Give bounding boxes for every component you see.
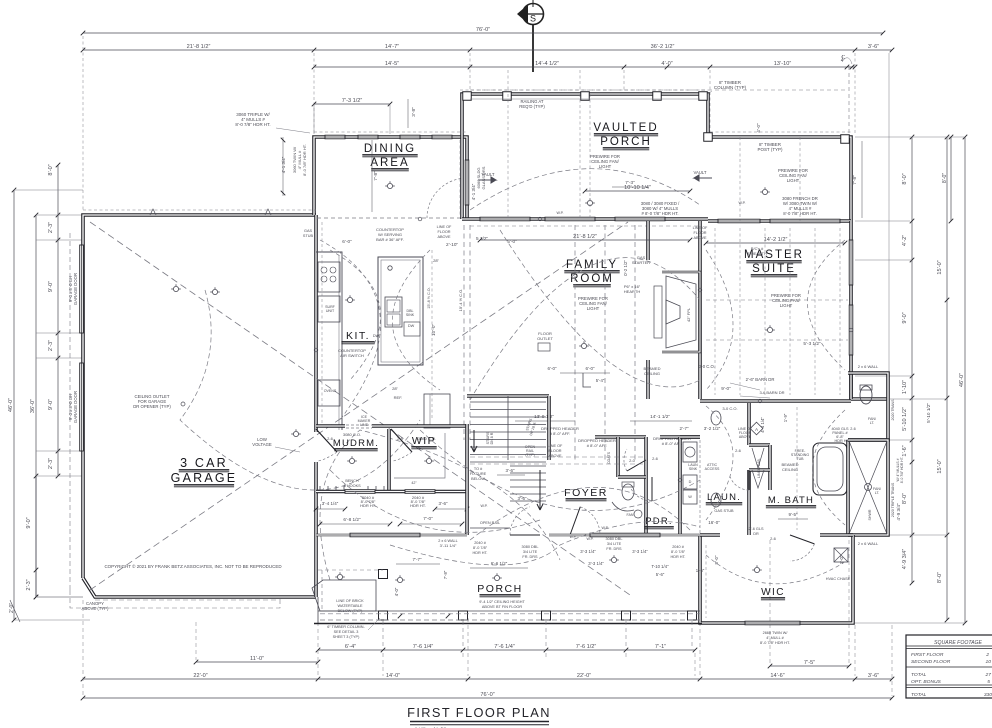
svg-text:3’-6”: 3’-6” [439,501,448,506]
svg-text:14’-5”: 14’-5” [385,61,399,67]
svg-text:VAULT: VAULT [481,172,494,177]
svg-text:2040 #: 2040 # [672,545,685,549]
svg-text:GAS STUB: GAS STUB [714,509,734,513]
svg-text:14’-1 1/2”: 14’-1 1/2” [650,414,670,419]
svg-text:42” FPL: 42” FPL [686,307,691,322]
garage arcs [180,290,420,490]
svg-text:ABOVE: ABOVE [739,435,752,439]
stairs [465,424,469,535]
svg-text:DN 8 R.: DN 8 R. [490,432,494,445]
svg-text:76’-0”: 76’-0” [480,692,494,698]
svg-text:# 8’-0” AFF.: # 8’-0” AFF. [587,443,608,448]
svg-text:ABOVE: ABOVE [437,235,451,239]
fireplace [662,272,700,352]
svg-text:2’-6” BARN DR: 2’-6” BARN DR [746,377,775,382]
svg-text:BENCH: BENCH [345,479,359,483]
svg-text:330: 330 [984,692,992,698]
svg-text:8’-0 7/8” HDR HT.: 8’-0 7/8” HDR HT. [760,641,790,645]
svg-text:ABOVE BT FIN FLOOR: ABOVE BT FIN FLOOR [482,605,522,609]
svg-text:M. BATH: M. BATH [768,495,814,506]
svg-text:9’-0”: 9’-0” [902,312,908,323]
right dims [911,137,913,583]
svg-text:2 x 6 WALL: 2 x 6 WALL [858,541,879,546]
svg-text:7’-3”: 7’-3” [625,180,635,185]
svg-text:3’-6”: 3’-6” [868,44,879,50]
svg-text:14’-7”: 14’-7” [385,44,399,50]
svg-text:STUB: STUB [303,234,314,238]
svg-text:GLASS DRS: GLASS DRS [481,166,486,189]
svg-text:28”: 28” [433,258,439,263]
svg-text:2660 TWIN W/: 2660 TWIN W/ [763,631,789,635]
svg-text:LIGHT: LIGHT [587,306,600,311]
svg-text:FR. DRS: FR. DRS [522,555,538,559]
svg-text:VAULT: VAULT [693,170,706,175]
svg-text:6” TIMBER COLUMN-: 6” TIMBER COLUMN- [327,625,365,629]
svg-text:13’-10”: 13’-10” [774,61,792,67]
svg-text:3’-2 1/2”: 3’-2 1/2” [704,426,721,431]
garage X ceiling lines [90,222,630,595]
svg-text:1’-6”: 1’-6” [902,445,908,456]
svg-text:6’-8 1/2”: 6’-8 1/2” [343,517,361,522]
svg-text:DW: DW [373,334,380,338]
svg-text:FLOOR: FLOOR [437,230,450,234]
svg-text:LT.: LT. [870,421,875,425]
svg-text:LIGHT: LIGHT [780,303,793,308]
garage walls [83,215,316,578]
svg-text:6’-6 1/2”: 6’-6 1/2” [491,561,508,566]
svg-text:10’-10 1/4”: 10’-10 1/4” [624,185,651,191]
svg-text:15’-0”: 15’-0” [937,260,943,274]
canopy dashed [69,233,71,590]
svg-text:5’-3 1/2”: 5’-3 1/2” [803,341,821,346]
svg-text:2020 TRANS: 2020 TRANS [891,399,895,421]
svg-text:R/C’s #: R/C’s # [751,247,764,251]
svg-text:15’-0”: 15’-0” [937,459,943,473]
svg-text:A: A [755,427,758,432]
svg-text:7’-5”: 7’-5” [804,660,815,666]
svg-text:1’-9”: 1’-9” [783,413,788,422]
svg-text:COATS: COATS [607,451,611,464]
kitchen [316,252,342,430]
svg-text:CEILING: CEILING [644,371,660,376]
svg-text:8’-0”: 8’-0” [902,493,908,504]
svg-text:ABOVE (TYP): ABOVE (TYP) [82,606,110,611]
svg-text:GARAGE: GARAGE [171,471,238,485]
svg-text:16’-0”: 16’-0” [708,520,720,525]
svg-text:4’-0”: 4’-0” [756,123,761,133]
svg-text:COLUMN (TYP): COLUMN (TYP) [714,85,747,90]
svg-text:PORCH: PORCH [477,583,522,595]
svg-text:28”: 28” [392,386,398,391]
svg-text:8’-0 7/8” HDR HT.: 8’-0 7/8” HDR HT. [235,122,270,127]
svg-text:14’-4 1/2”: 14’-4 1/2” [535,61,559,67]
svg-text:W.P.: W.P. [556,211,563,215]
svg-text:21’-8 1/2”: 21’-8 1/2” [187,44,211,50]
svg-text:8’-0”: 8’-0” [937,572,943,583]
svg-text:CEILING: CEILING [782,467,798,472]
svg-text:LIGHT: LIGHT [599,164,612,169]
svg-text:REQ’D (TYP): REQ’D (TYP) [519,104,545,109]
svg-text:HDR HT.: HDR HT. [835,439,850,443]
svg-text:0’-2 1/2”: 0’-2 1/2” [623,260,628,276]
svg-text:15’-4 ½ C.O.: 15’-4 ½ C.O. [458,289,463,312]
svg-text:8’ HEARTH: 8’ HEARTH [747,252,767,256]
svg-text:GARAGE DOOR: GARAGE DOOR [73,273,78,305]
family room [646,221,650,260]
svg-text:3080 DBL: 3080 DBL [606,537,623,541]
svg-text:FIXTURE: FIXTURE [470,472,487,476]
svg-text:T-10 1/4”: T-10 1/4” [651,564,669,569]
svg-text:TOTAL: TOTAL [911,672,927,678]
svg-text:7’-1”: 7’-1” [655,644,666,650]
svg-text:DW: DW [408,324,415,328]
svg-text:14’-6”: 14’-6” [770,673,784,679]
svg-text:9’-0”: 9’-0” [721,386,731,391]
svg-text:4’-1 3/4”: 4’-1 3/4” [281,156,286,173]
svg-text:2040 #: 2040 # [474,541,487,545]
svg-text:PORCH: PORCH [600,136,652,148]
svg-text:FLOOR: FLOOR [548,449,561,453]
svg-text:3 CAR: 3 CAR [180,456,228,470]
svg-text:SECOND FLOOR: SECOND FLOOR [911,659,951,665]
svg-text:3’-6”: 3’-6” [868,673,879,679]
svg-text:3’-6”: 3’-6” [506,468,515,473]
svg-text:VAULTED: VAULTED [593,122,658,134]
svg-text:BELOW (TYP): BELOW (TYP) [338,609,363,613]
svg-text:6’-0”: 6’-0” [586,366,595,371]
svg-text:REF.: REF. [394,395,403,400]
svg-text:2’-3”: 2’-3” [26,579,32,590]
dining walls [314,137,467,219]
master suite [698,221,702,399]
svg-text:7’-8”: 7’-8” [443,570,448,579]
svg-text:BAR # 36” AFF.: BAR # 36” AFF. [376,237,404,242]
svg-text:3/4 LITE: 3/4 LITE [523,550,538,554]
svg-text:7’-6 1/4”: 7’-6 1/4” [413,644,434,650]
svg-text:SEE DETAIL 3: SEE DETAIL 3 [334,630,359,634]
svg-text:36’-0”: 36’-0” [30,399,36,413]
svg-text:LINE OF: LINE OF [548,444,563,448]
svg-text:2’-3”: 2’-3” [48,458,54,469]
svg-text:14’-0”: 14’-0” [386,673,400,679]
pdr & closets [595,435,646,439]
svg-text:4’-0”: 4’-0” [661,61,672,67]
svg-text:DINING: DINING [364,143,416,155]
svg-text:WATERTABLE: WATERTABLE [338,604,363,608]
svg-text:2-6: 2-6 [327,436,334,441]
svg-text:DR: DR [753,532,759,536]
svg-text:1’-10”: 1’-10” [902,380,908,394]
svg-text:(TYP): (TYP) [525,453,534,457]
svg-text:4” MULL #: 4” MULL # [766,636,784,640]
svg-text:5 1/2”: 5 1/2” [476,236,488,241]
svg-text:SINK: SINK [689,467,698,471]
svg-text:COPYRIGHT © 2021 BY FRANK BETZ: COPYRIGHT © 2021 BY FRANK BETZ ASSOCIATE… [104,563,282,569]
svg-text:3080 DBL: 3080 DBL [522,545,539,549]
svg-text:2-6: 2-6 [735,448,742,453]
svg-text:2-6: 2-6 [850,427,856,431]
svg-text:OVENS: OVENS [324,389,337,393]
svg-text:6’-0”: 6’-0” [548,366,557,371]
svg-text:3’-4 1/4”: 3’-4 1/4” [322,501,339,506]
svg-text:8’-0 7/8” HDR HT.: 8’-0 7/8” HDR HT. [900,457,904,484]
svg-text:7’-7”: 7’-7” [413,557,422,562]
svg-text:STARTER: STARTER [632,260,650,265]
svg-text:UNIT: UNIT [326,309,335,313]
svg-text:42”: 42” [411,481,417,485]
svg-text:3’-3 1/4”: 3’-3 1/4” [580,549,596,554]
svg-text:15’-8 ½ C.O.: 15’-8 ½ C.O. [427,287,431,309]
svg-text:ABOVE: ABOVE [693,236,707,240]
svg-text:LINE OF BRICK: LINE OF BRICK [336,599,364,603]
svg-text:9’-0”: 9’-0” [48,399,54,410]
svg-text:5’-4”: 5’-4” [596,378,605,383]
svg-text:WIC: WIC [761,587,785,598]
svg-text:22’-0”: 22’-0” [577,673,591,679]
svg-text:7’-6 1/2”: 7’-6 1/2” [576,644,597,650]
svg-text:SHWR: SHWR [868,509,872,520]
svg-text:7’-8”: 7’-8” [373,171,378,181]
svg-text:5’-10 1/2”: 5’-10 1/2” [926,403,931,423]
svg-text:AIR SWITCH: AIR SWITCH [340,353,364,358]
svg-text:76’-0”: 76’-0” [476,27,490,33]
svg-text:9’-0”: 9’-0” [26,517,32,528]
svg-text:W.P.: W.P. [570,535,577,539]
svg-text:LIGHT: LIGHT [787,178,800,183]
svg-text:KIT.: KIT. [346,330,370,342]
svg-text:1’-6”: 1’-6” [696,568,705,573]
svg-text:6’-4”: 6’-4” [345,644,356,650]
svg-text:SHEET 3 (TYP): SHEET 3 (TYP) [333,635,360,639]
svg-text:2: 2 [985,652,989,658]
svg-text:HDR HT.: HDR HT. [360,503,376,508]
svg-text:3-6 BARN DR: 3-6 BARN DR [760,390,785,395]
svg-text:FLOOR: FLOOR [693,231,706,235]
svg-text:21’-8 1/2”: 21’-8 1/2” [573,234,597,240]
svg-text:2-6: 2-6 [770,536,777,541]
svg-text:HDR HT.: HDR HT. [671,555,686,559]
svg-text:8’-0”: 8’-0” [48,164,54,175]
svg-text:BELOW: BELOW [471,477,485,481]
svg-text:HEARTH: HEARTH [624,289,641,294]
svg-text:22’-0”: 22’-0” [193,673,207,679]
svg-text:HDR HT.: HDR HT. [473,551,488,555]
svg-text:8’-0 7/8”: 8’-0 7/8” [473,546,488,550]
svg-text:2 x 6 WALL: 2 x 6 WALL [858,364,879,369]
svg-text:9’-5”: 9’-5” [789,512,798,517]
svg-text:4’-1 3/4”: 4’-1 3/4” [471,183,476,200]
svg-text:LINE OF: LINE OF [437,225,452,229]
svg-text:FOYER: FOYER [564,487,608,499]
left dims [13,190,15,620]
svg-text:LINE OF: LINE OF [693,226,708,230]
svg-text:7’-0”: 7’-0” [423,516,433,521]
extension lines [382,621,384,648]
svg-text:9’-4 1/2” CEILING HEIGHT: 9’-4 1/2” CEILING HEIGHT [479,600,525,604]
svg-text:3’-8”: 3’-8” [411,107,416,117]
svg-text:HVAC CHASE: HVAC CHASE [826,577,851,581]
master bath [700,399,851,403]
svg-text:# 8’-0 7/8” HDR HT.: # 8’-0 7/8” HDR HT. [641,211,678,216]
svg-text:5’-6”: 5’-6” [656,572,665,577]
mudroom & wip [316,424,345,428]
svg-text:LAUN.: LAUN. [707,492,741,503]
svg-text:8’-0”: 8’-0” [714,555,719,564]
svg-text:ROOM: ROOM [570,273,614,285]
laundry [678,437,682,535]
svg-text:POST (TYP): POST (TYP) [758,147,784,152]
svg-text:46’-0”: 46’-0” [8,398,14,412]
svg-text:13’-9 1/2”: 13’-9 1/2” [534,414,554,419]
svg-text:FIRST FLOOR: FIRST FLOOR [911,652,944,658]
svg-text:OUTLET: OUTLET [537,336,553,341]
svg-text:W.P.: W.P. [480,504,487,508]
svg-text:DR OPENER (TYP): DR OPENER (TYP) [133,404,171,409]
svg-text:4’-2”: 4’-2” [902,235,908,246]
svg-text:2-6: 2-6 [652,456,659,461]
svg-text:7’-3 1/2”: 7’-3 1/2” [342,98,363,104]
svg-text:11’-0”: 11’-0” [250,656,264,662]
svg-text:8’-0”: 8’-0” [902,173,908,184]
svg-text:TUB: TUB [796,457,804,461]
square footage table [906,635,992,698]
svg-text:2-6: 2-6 [397,436,404,441]
svg-text:3-0 C.O.: 3-0 C.O. [722,406,737,411]
north arrow [517,0,544,72]
svg-text:D: D [689,480,692,484]
svg-text:3-0 C.O.: 3-0 C.O. [699,364,715,369]
svg-text:W: W [688,495,692,499]
svg-text:FAN: FAN [627,513,634,517]
tub [813,443,847,495]
svg-text:2’-3”: 2’-3” [48,222,54,233]
svg-text:3’-3 1/4”: 3’-3 1/4” [632,549,648,554]
svg-text:7’-8”: 7’-8” [852,175,857,185]
svg-text:5’-0”: 5’-0” [507,239,517,244]
svg-text:27: 27 [985,672,992,678]
svg-text:9’-0”: 9’-0” [48,281,54,292]
svg-text:HDR HT.: HDR HT. [410,503,426,508]
svg-text:W.P.: W.P. [738,201,745,205]
svg-text:8’-0 7/8”: 8’-0 7/8” [671,550,686,554]
svg-text:SUITE: SUITE [752,263,796,275]
svg-text:AREA: AREA [370,157,409,169]
svg-text:TO #: TO # [474,467,483,471]
rear porch [316,534,467,537]
svg-text:MUDRM.: MUDRM. [333,438,379,449]
bottom dims [318,649,695,651]
svg-text:VOLTAGE: VOLTAGE [252,442,272,447]
svg-text:2’-3”: 2’-3” [48,340,54,351]
svg-text:# 8’-0” AFF.: # 8’-0” AFF. [550,431,571,436]
svg-text:46’-0”: 46’-0” [959,373,965,387]
svg-text:3/4 LITE: 3/4 LITE [607,542,622,546]
svg-text:OPEN RAIL: OPEN RAIL [480,521,500,525]
svg-text:2’-6 GLS: 2’-6 GLS [749,527,764,531]
svg-text:W.P.: W.P. [586,537,593,541]
house front wall [462,217,708,221]
svg-text:SINK: SINK [406,313,415,317]
svg-text:8’-0 7/8” HDR HT.: 8’-0 7/8” HDR HT. [302,144,307,176]
toilet room & shower [849,373,853,399]
svg-text:& HOOKS: & HOOKS [343,484,361,488]
svg-text:4’-9 3/4”: 4’-9 3/4” [902,549,908,570]
svg-text:5’-10 1/2”: 5’-10 1/2” [902,407,908,431]
svg-text:ACCESS: ACCESS [705,467,720,471]
svg-text:6’-0”: 6’-0” [342,239,352,244]
svg-text:FIRST FLOOR PLAN: FIRST FLOOR PLAN [407,705,551,720]
svg-text:2’-10”: 2’-10” [446,242,458,247]
svg-text:36’-2 1/2”: 36’-2 1/2” [651,44,675,50]
svg-text:ABOVE: ABOVE [548,454,562,458]
svg-text:14’-2 1/2”: 14’-2 1/2” [764,237,788,243]
vaulted porch [462,94,851,221]
svg-text:4’-0”: 4’-0” [394,587,399,596]
svg-text:5: 5 [987,679,990,685]
svg-text:S: S [530,14,536,24]
svg-text:OPT. BONUS: OPT. BONUS [911,679,942,685]
svg-text:3’-11 1/4”: 3’-11 1/4” [440,543,457,548]
svg-text:LT.: LT. [875,491,880,495]
svg-text:3’-3 1/4”: 3’-3 1/4” [588,561,604,566]
svg-text:TOTAL: TOTAL [911,692,927,698]
WIC [700,535,853,623]
svg-text:3080 C.O.: 3080 C.O. [343,432,361,437]
svg-text:2’-7”: 2’-7” [680,426,689,431]
svg-text:10: 10 [986,659,992,665]
svg-text:FR. DRS: FR. DRS [606,547,622,551]
svg-text:GARAGE DOOR: GARAGE DOOR [73,391,78,423]
svg-text:2-0: 2-0 [629,458,636,463]
svg-text:2020 TRIPLE TRANS: 2020 TRIPLE TRANS [891,482,895,517]
svg-text:GAS: GAS [304,229,312,233]
svg-text:7’-6 1/4”: 7’-6 1/4” [494,644,515,650]
svg-text:8’-0”: 8’-0” [942,173,948,184]
top dims [83,32,883,34]
svg-text:4’-9 3/4”: 4’-9 3/4” [896,503,901,521]
svg-text:SQUARE FOOTAGE: SQUARE FOOTAGE [934,640,982,646]
